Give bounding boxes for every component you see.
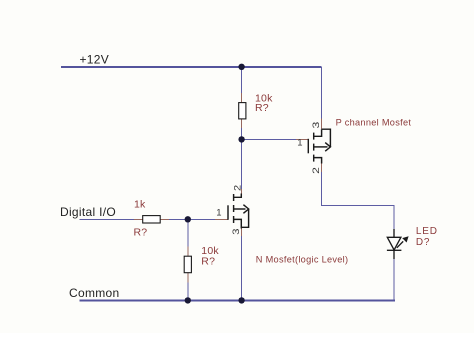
svg-text:1: 1 <box>297 138 302 149</box>
svg-text:LED: LED <box>416 226 438 237</box>
svg-text:2: 2 <box>232 185 243 191</box>
svg-text:Digital I/O: Digital I/O <box>60 205 116 219</box>
svg-text:1k: 1k <box>134 199 146 211</box>
svg-text:P channel Mosfet: P channel Mosfet <box>336 118 412 128</box>
svg-text:D?: D? <box>416 237 430 248</box>
svg-text:+12V: +12V <box>80 52 110 66</box>
svg-text:2: 2 <box>311 167 322 174</box>
svg-text:1: 1 <box>216 208 221 219</box>
svg-text:R?: R? <box>134 226 148 238</box>
svg-text:3: 3 <box>231 229 242 235</box>
svg-text:Common: Common <box>69 286 119 300</box>
svg-text:N Mosfet(logic Level): N Mosfet(logic Level) <box>256 255 349 265</box>
svg-text:R?: R? <box>255 102 269 114</box>
svg-text:R?: R? <box>201 255 215 267</box>
svg-text:3: 3 <box>311 122 322 129</box>
